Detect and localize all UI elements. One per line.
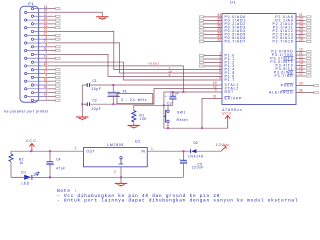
wire reset node column	[163, 92, 165, 128]
wire pin10 to P1.4	[47, 31, 222, 69]
svg-text:D2: D2	[194, 141, 198, 145]
P1 pin 6	[31, 61, 33, 63]
svg-text:30pF: 30pF	[92, 87, 102, 91]
U1 pin 4 P1.3	[199, 65, 204, 67]
capacitor C4 47uF	[49, 150, 51, 152]
svg-text:P2.7/A15: P2.7/A15	[273, 40, 294, 44]
power flag VCC (EA)	[227, 116, 229, 128]
wire pin7 to P1.6	[47, 54, 222, 76]
wire pin25 to ground	[47, 12, 102, 16]
U1 pin 14 P3.4/T0	[296, 65, 306, 67]
crystal X1 3-24MHz	[112, 85, 114, 92]
svg-text:16: 16	[44, 77, 48, 81]
P1 pin 16	[25, 80, 27, 82]
svg-text:3: 3	[45, 81, 47, 85]
svg-text:13: 13	[44, 5, 48, 9]
svg-text:+: +	[46, 160, 48, 164]
svg-text:1: 1	[45, 96, 47, 100]
svg-text:2: 2	[45, 89, 47, 93]
svg-text:3 - 24 MHz: 3 - 24 MHz	[121, 98, 148, 102]
U1 pin 27 P2.6/A14	[296, 37, 306, 39]
active-low overlines	[284, 56, 294, 58]
P1 pin 21	[25, 42, 27, 44]
svg-text:1: 1	[151, 147, 153, 151]
svg-text:31: 31	[213, 95, 217, 99]
capacitor C1 30pF	[82, 84, 87, 86]
wire C1/C2 ground column	[81, 85, 83, 117]
svg-text:VCC: VCC	[222, 112, 232, 116]
wire reset bottom rail	[164, 127, 228, 129]
svg-text:22: 22	[44, 32, 48, 36]
svg-text:20: 20	[44, 47, 48, 51]
svg-text:12Vdc: 12Vdc	[216, 142, 230, 147]
svg-text:14: 14	[44, 93, 48, 97]
P1 pin 25	[25, 11, 27, 13]
U1 pin 16 P3.6/WR	[296, 72, 306, 74]
U1 pin 12 P3.2/INT0	[296, 58, 306, 60]
P1 pin 23	[25, 27, 27, 29]
P1 pin 2	[31, 91, 33, 93]
svg-text:7: 7	[45, 51, 47, 55]
svg-text:19: 19	[44, 54, 48, 58]
svg-text:U2: U2	[135, 140, 141, 144]
svg-text:23: 23	[44, 24, 48, 28]
U2 pin 1 wire to D2	[147, 150, 190, 152]
U1 pin 35 P0.4/AD4	[199, 30, 204, 32]
svg-text:24: 24	[44, 16, 48, 20]
ground (below R1)	[128, 124, 140, 126]
wire pin22 to P1.5	[47, 43, 222, 73]
svg-text:VCC: VCC	[26, 138, 37, 143]
P1 pin 10	[31, 30, 33, 32]
svg-text:17: 17	[299, 72, 303, 76]
svg-text:4: 4	[45, 74, 47, 78]
U1 pin 1 P1.0	[199, 54, 204, 56]
U1 pin 24 P2.3/A11	[296, 26, 306, 28]
P1 pin 13	[31, 7, 33, 9]
svg-text:LM7805: LM7805	[107, 143, 124, 147]
wire bottom rail	[11, 176, 184, 178]
svg-text:Reset: Reset	[177, 118, 189, 122]
svg-text:21: 21	[44, 39, 48, 43]
svg-text:U1: U1	[230, 1, 236, 5]
svg-text:8: 8	[219, 76, 221, 80]
svg-text:C2: C2	[93, 99, 97, 103]
capacitor C2 30pF	[82, 103, 87, 105]
crystal value frame 3 - 24 MHz	[117, 94, 153, 104]
svg-text:2: 2	[75, 147, 77, 151]
U1 pin 36 P0.3/AD3	[199, 26, 204, 28]
svg-text:+: +	[179, 157, 181, 161]
svg-text:32: 32	[217, 38, 221, 42]
svg-text:C1: C1	[93, 79, 97, 83]
ground (below C1/C2)	[76, 116, 88, 118]
svg-text:1N4148: 1N4148	[188, 155, 204, 159]
svg-text:- Vcc dihubungkan ke pin 40 da: - Vcc dihubungkan ke pin 40 dan ground k…	[57, 193, 220, 199]
svg-text:30pF: 30pF	[92, 107, 102, 111]
U1 pin 17 P3.7/RD	[296, 75, 306, 77]
svg-text:12: 12	[44, 12, 48, 16]
svg-text:5: 5	[45, 66, 47, 70]
U1 pin 33 P0.6/AD6	[199, 37, 204, 39]
svg-text:PSEN: PSEN	[281, 84, 294, 88]
svg-text:reset: reset	[149, 62, 160, 66]
svg-text:SW1: SW1	[177, 110, 186, 114]
P1 pin 17	[25, 72, 27, 74]
svg-text:15: 15	[44, 85, 48, 89]
U1 pin 3 P1.2	[199, 61, 204, 63]
U1 pin 34 P0.5/AD5	[199, 33, 204, 35]
svg-text:47uF: 47uF	[56, 166, 66, 170]
svg-text:220uF: 220uF	[192, 165, 204, 169]
svg-text:C3: C3	[167, 102, 172, 106]
capacitor C3 10uF	[172, 92, 174, 96]
P1 pin 24	[25, 19, 27, 21]
P1 pin 5	[31, 69, 33, 71]
diode D2 1N4148	[190, 149, 192, 153]
P1 pin 3	[31, 84, 33, 86]
svg-text:30: 30	[299, 89, 303, 93]
svg-text:EA/VPP: EA/VPP	[225, 97, 243, 101]
svg-text:10: 10	[44, 28, 48, 32]
svg-text:D1: D1	[21, 171, 26, 175]
wire XTAL1 rail	[91, 84, 222, 86]
P1 pin 8	[31, 46, 33, 48]
svg-text:Note :: Note :	[57, 188, 77, 194]
switch SW1 Reset	[167, 105, 169, 110]
U1 pin 10 P3.0/RXD	[296, 51, 306, 53]
MCU U1 AT89Sxx	[222, 14, 296, 105]
U1 pin 28 P2.7/A15	[296, 40, 306, 42]
U1 pin 29 PSEN	[296, 85, 314, 87]
U1 pin 22 P2.1/A9	[296, 19, 306, 21]
svg-text:3: 3	[114, 170, 116, 174]
U1 pin 11 P3.1/TXD	[296, 54, 306, 56]
wire VCC top rail	[11, 150, 84, 152]
svg-text:C4: C4	[56, 157, 60, 161]
wire RST rail	[164, 91, 222, 93]
P1 pin 1	[31, 99, 33, 101]
svg-text:RST: RST	[225, 90, 235, 94]
P1 pin 18	[25, 65, 27, 67]
svg-text:25: 25	[44, 9, 48, 13]
svg-text:OUT: OUT	[87, 150, 96, 154]
svg-text:- Untuk port lainnya dapat dih: - Untuk port lainnya dapat dihubungkan d…	[57, 198, 298, 204]
svg-text:8: 8	[45, 43, 47, 47]
U1 pin 13 P3.3/INT1	[296, 61, 306, 63]
P1 pin 22	[25, 34, 27, 36]
svg-text:17: 17	[44, 70, 48, 74]
svg-text:ALE/PROG: ALE/PROG	[269, 91, 294, 95]
U1 pin 39 P0.0/AD0	[199, 16, 204, 18]
U1 pin 23 P2.2/A10	[296, 23, 306, 25]
P1 pin 12	[31, 15, 33, 17]
power flag 12Vdc	[221, 146, 226, 151]
svg-text:1k: 1k	[19, 161, 23, 165]
svg-text:LED: LED	[22, 182, 30, 186]
svg-text:6: 6	[45, 58, 47, 62]
svg-text:29: 29	[299, 82, 303, 86]
power flag VCC (supply)	[31, 144, 33, 151]
resistor R1 10K	[133, 105, 135, 110]
svg-text:+: +	[165, 94, 167, 98]
svg-text:28: 28	[299, 38, 303, 42]
wire reset net (pin18 to RST)	[47, 66, 183, 92]
wire EA/VPP to VCC	[202, 98, 222, 128]
connector P1 (DB25, ke parallel port printer)	[20, 6, 39, 102]
U1 pin 32 P0.7/AD7	[199, 40, 204, 42]
ground (top, pin 25)	[96, 16, 108, 18]
svg-text:P3.7/RD: P3.7/RD	[274, 74, 293, 78]
wire XTAL2 rail	[91, 88, 222, 104]
U1 pin 26 P2.5/A13	[296, 33, 306, 35]
svg-text:11: 11	[44, 20, 48, 24]
U1 pin 2 P1.1	[199, 58, 204, 60]
wire pin6 to P1.7	[47, 62, 222, 80]
U1 pin 25 P2.4/A12	[296, 30, 306, 32]
svg-text:ke parallel port printer: ke parallel port printer	[4, 110, 49, 114]
U1 pin 38 P0.1/AD1	[199, 19, 204, 21]
U1 pin 37 P0.2/AD2	[199, 23, 204, 25]
svg-text:9: 9	[45, 35, 47, 39]
U1 pin 21 P2.0/A8	[296, 16, 306, 18]
svg-text:10uF: 10uF	[170, 92, 180, 96]
U2 ground pin glyph	[120, 157, 122, 159]
svg-text:P1.7: P1.7	[225, 78, 236, 82]
P1 pin 15	[25, 88, 27, 90]
P1 pin 4	[31, 76, 33, 78]
svg-text:18: 18	[44, 62, 48, 66]
svg-text:P1: P1	[28, 1, 34, 6]
P1 pin 11	[31, 23, 33, 25]
wire R1 rail	[134, 104, 164, 106]
P1 pin 19	[25, 57, 27, 59]
U1 pin 15 P3.5/T1	[296, 68, 306, 70]
P1 pin 7	[31, 53, 33, 55]
U1 pin 30 ALE/PROG	[296, 92, 314, 94]
P1 pin 14	[25, 95, 27, 97]
svg-text:X1: X1	[123, 90, 127, 94]
P1 pin 9	[31, 38, 33, 40]
LED arrows	[34, 174, 39, 177]
capacitor C5 220uF	[183, 150, 185, 152]
resistor R2 1k	[10, 151, 12, 154]
svg-text:9: 9	[215, 88, 217, 92]
svg-text:8: 8	[169, 73, 171, 77]
svg-text:10K: 10K	[140, 117, 148, 121]
P1 pin 20	[25, 49, 27, 51]
svg-text:P0.7/AD7: P0.7/AD7	[225, 40, 247, 44]
